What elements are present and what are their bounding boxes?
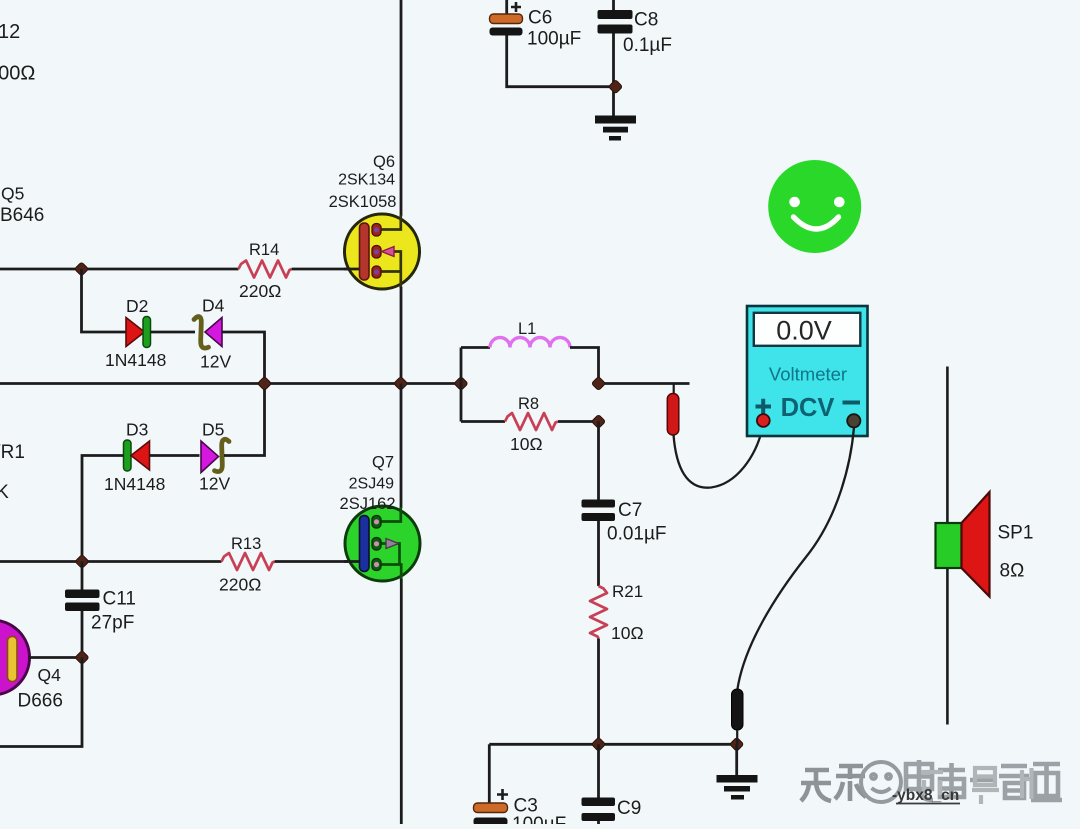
svg-text:C11: C11 bbox=[103, 589, 136, 610]
watermark underline bbox=[896, 803, 960, 805]
wire C7 to R21 bbox=[597, 521, 600, 586]
wire D3 row left leg bbox=[82, 456, 124, 562]
transistor Q6 body bbox=[345, 214, 420, 289]
svg-text:10K: 10K bbox=[0, 482, 9, 503]
wire ground lead bbox=[735, 744, 738, 776]
svg-text:2SK134: 2SK134 bbox=[338, 172, 395, 189]
voltmeter black terminal bbox=[847, 414, 860, 427]
wire R8 right lead bbox=[558, 420, 599, 423]
svg-text:2SJ162: 2SJ162 bbox=[340, 495, 396, 513]
svg-text:100µF: 100µF bbox=[527, 29, 581, 50]
junction C11 / Q4 node bbox=[75, 650, 89, 664]
wire mid rail right segment bbox=[599, 382, 690, 385]
transistor Q7 body bbox=[345, 506, 420, 581]
diode D3 bbox=[124, 440, 150, 471]
wire Q4 to junction bbox=[28, 656, 82, 659]
resistor R14 bbox=[239, 261, 292, 278]
svg-text:100µF: 100µF bbox=[512, 814, 566, 824]
watermark logo circle bbox=[861, 762, 901, 802]
wire L1 top left lead bbox=[461, 346, 490, 349]
svg-text:DCV: DCV bbox=[781, 394, 835, 422]
ground top bbox=[595, 116, 636, 141]
wire D2 to D4 bbox=[151, 331, 196, 334]
svg-text:D4: D4 bbox=[202, 296, 225, 316]
junction mid rail / L1-R8 left node bbox=[454, 376, 468, 390]
capacitor C7 bbox=[582, 500, 616, 522]
svg-text:SP1: SP1 bbox=[998, 523, 1034, 544]
svg-text:12: 12 bbox=[0, 21, 20, 43]
svg-text:2SK1058: 2SK1058 bbox=[329, 193, 397, 211]
svg-text:0.01µF: 0.01µF bbox=[607, 524, 667, 545]
speaker SP1 bbox=[936, 492, 990, 597]
capacitor C6 plus sign bbox=[511, 2, 521, 12]
wire junction to C11 bbox=[81, 562, 84, 592]
svg-text:R21: R21 bbox=[612, 582, 643, 601]
wire Q6 source to output node bbox=[400, 287, 403, 384]
wire Q6 source internal bbox=[379, 252, 401, 289]
resistor R21 bbox=[590, 586, 607, 639]
wire output mid rail bbox=[0, 382, 461, 385]
transistor Q4 body (cut at left edge) bbox=[0, 620, 30, 695]
svg-text:Q5: Q5 bbox=[1, 184, 24, 204]
transistor Q4 internal bar bbox=[8, 637, 18, 682]
capacitor C3 bbox=[474, 803, 508, 826]
wire R13 to Q7 gate bbox=[275, 560, 349, 563]
wire junction down to D2 row bbox=[82, 269, 127, 332]
junction upper rail / diode branch bbox=[74, 262, 88, 276]
wire L1-R8 left branch bbox=[460, 348, 463, 422]
wire C8 top lead bbox=[612, 0, 615, 11]
capacitor C8 bbox=[598, 10, 633, 34]
svg-text:27pF: 27pF bbox=[91, 613, 134, 634]
svg-text:Q4: Q4 bbox=[38, 665, 62, 685]
wire Q7 gate lead inside body bbox=[344, 560, 362, 563]
junction mid rail / L1-R8 right node bbox=[591, 376, 605, 390]
inductor L1 bbox=[490, 338, 570, 348]
red probe bbox=[667, 394, 679, 436]
svg-text:L1: L1 bbox=[518, 320, 536, 338]
wire black probe lead from meter bbox=[737, 427, 854, 690]
black probe bbox=[732, 689, 744, 730]
svg-text:1N4148: 1N4148 bbox=[105, 350, 166, 370]
capacitor C11 bbox=[65, 590, 100, 612]
smiley face bbox=[768, 160, 861, 253]
svg-text:10Ω: 10Ω bbox=[611, 623, 644, 643]
wire C6 top lead bbox=[505, 0, 508, 15]
svg-text:12V: 12V bbox=[199, 474, 230, 494]
resistor R13 bbox=[222, 553, 275, 570]
junction bottom rail / probe ground bbox=[730, 737, 744, 751]
wire bottom rail bbox=[489, 743, 736, 746]
svg-text:R14: R14 bbox=[249, 241, 279, 259]
svg-text:B646: B646 bbox=[0, 205, 44, 226]
watermark gray glyph blob 2 bbox=[906, 760, 1062, 800]
wire C7 top lead bbox=[597, 422, 600, 502]
wire C9 bottom lead bbox=[597, 821, 600, 824]
svg-text:12V: 12V bbox=[200, 352, 231, 372]
transistor Q6 gate bar bbox=[360, 223, 370, 280]
wire Q6 gate lead inside body bbox=[344, 268, 362, 271]
wire C9 top lead bbox=[597, 744, 600, 799]
junction Q6/Q7 sources / mid rail bbox=[394, 376, 408, 390]
capacitor C6 bbox=[490, 14, 523, 36]
wire C3 top lead bbox=[488, 744, 491, 803]
svg-text:8Ω: 8Ω bbox=[1000, 561, 1025, 582]
svg-text:0.1µF: 0.1µF bbox=[623, 35, 672, 56]
wire Q7 drain internal bbox=[379, 544, 401, 581]
wire D5 to mid rail bbox=[224, 384, 265, 456]
zener D5 bbox=[201, 439, 229, 472]
wire R21 to bottom rail bbox=[597, 639, 600, 745]
capacitor C3 plus sign bbox=[497, 789, 508, 800]
voltmeter red terminal bbox=[757, 414, 770, 427]
junction gate rail / C11 branch bbox=[75, 554, 89, 568]
svg-text:10Ω: 10Ω bbox=[510, 434, 543, 454]
svg-text:Q6: Q6 bbox=[373, 153, 395, 171]
svg-text:D666: D666 bbox=[18, 691, 63, 712]
wire D4 to mid rail bbox=[222, 332, 265, 384]
svg-text:0.0V: 0.0V bbox=[776, 316, 832, 346]
wire C6 bottom lead to junction bbox=[507, 36, 616, 87]
svg-text:2SJ49: 2SJ49 bbox=[349, 476, 394, 493]
svg-text:220Ω: 220Ω bbox=[239, 281, 281, 301]
svg-text:100Ω: 100Ω bbox=[0, 63, 35, 85]
wire drain rail above Q6 bbox=[400, 0, 403, 216]
wire gate rail left of R13 bbox=[0, 560, 222, 563]
junction bottom rail / R21 bbox=[591, 737, 605, 751]
wire Q7 source internal bbox=[379, 507, 401, 522]
svg-text:R13: R13 bbox=[231, 535, 261, 553]
wire red probe lead to meter bbox=[674, 428, 763, 488]
svg-text:C8: C8 bbox=[634, 10, 658, 31]
wire D3 to D5 bbox=[149, 454, 200, 457]
wire red probe stem bbox=[673, 384, 675, 396]
svg-text:D3: D3 bbox=[126, 420, 148, 440]
ground bottom bbox=[717, 775, 758, 800]
svg-text:D2: D2 bbox=[126, 296, 148, 316]
wire output node to Q7 source bbox=[400, 384, 403, 509]
svg-text:Q7: Q7 bbox=[372, 454, 394, 472]
junction C6/C8/ground node bbox=[608, 80, 622, 94]
wire speaker rail bbox=[946, 367, 949, 725]
wire upper rail left of R14 bbox=[0, 268, 239, 271]
voltmeter minus mark bbox=[843, 401, 861, 405]
transistor Q6 pin pads bbox=[372, 224, 381, 279]
zener D4 bbox=[194, 317, 222, 349]
voltmeter body bbox=[747, 306, 868, 436]
svg-text:Voltmeter: Voltmeter bbox=[769, 364, 847, 385]
junction R8 right / C7 branch bbox=[591, 414, 605, 428]
voltmeter display bbox=[754, 313, 861, 346]
wire R14 to Q6 gate bbox=[292, 268, 348, 271]
capacitor C9 bbox=[582, 798, 616, 822]
wire black probe stem bbox=[736, 730, 738, 744]
wire C8 bottom lead through junction to ground bbox=[612, 34, 615, 117]
svg-text:VR1: VR1 bbox=[0, 442, 25, 463]
wire Q4 node down and left to edge bbox=[0, 658, 82, 747]
svg-text:C7: C7 bbox=[618, 500, 642, 521]
wire L1 right lead bbox=[570, 348, 599, 384]
svg-text:R8: R8 bbox=[518, 395, 539, 413]
wire C11 to Q4 node bbox=[81, 611, 84, 659]
transistor Q6 substrate arrow bbox=[382, 247, 395, 257]
wire Q6 drain internal bbox=[379, 215, 401, 230]
watermark gray glyph blob 1 bbox=[801, 766, 866, 801]
wire R8 left lead bbox=[461, 420, 505, 423]
resistor R8 bbox=[505, 413, 558, 430]
wire Q7 drain down to bottom edge bbox=[400, 579, 403, 824]
transistor Q7 substrate arrow bbox=[386, 539, 399, 549]
watermark overlay glyphs bbox=[921, 768, 1032, 804]
transistor Q7 pin pads bbox=[372, 516, 381, 571]
svg-text:-ybx8_cn: -ybx8_cn bbox=[892, 787, 959, 804]
svg-text:1N4148: 1N4148 bbox=[104, 474, 165, 494]
diode D2 bbox=[126, 317, 151, 348]
voltmeter plus mark bbox=[756, 399, 772, 415]
svg-text:D5: D5 bbox=[202, 420, 224, 440]
svg-text:C6: C6 bbox=[528, 8, 552, 29]
transistor Q7 gate bar bbox=[360, 516, 370, 572]
junction diode clamp / mid rail bbox=[257, 376, 271, 390]
svg-text:C9: C9 bbox=[617, 798, 641, 819]
svg-text:220Ω: 220Ω bbox=[219, 575, 261, 595]
